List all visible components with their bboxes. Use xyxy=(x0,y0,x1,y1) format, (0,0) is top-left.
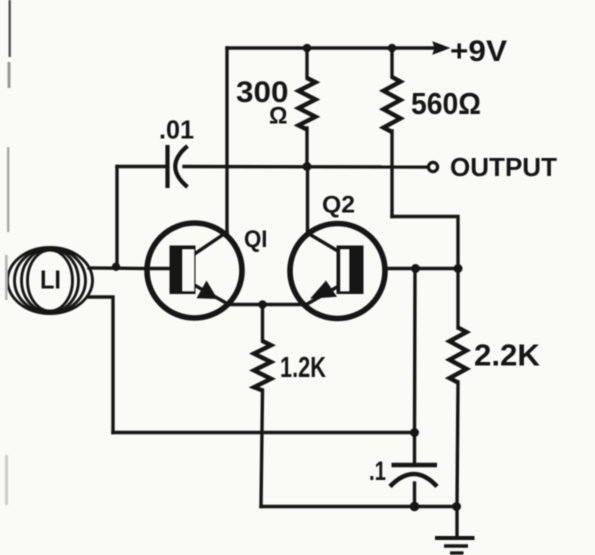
wire Q2 emitter diagonal xyxy=(308,287,337,304)
node junction dot top rail 560 ohm xyxy=(388,44,397,53)
wire ground lead xyxy=(455,507,458,537)
transistor Q1 circle xyxy=(147,223,242,318)
node junction dot feedback line xyxy=(410,428,419,437)
wire top rail +9V xyxy=(227,46,437,49)
capacitor C1 .01 curved plate xyxy=(175,146,187,187)
wire output row line xyxy=(117,165,167,168)
wire L1 top terminal to Q1 base xyxy=(89,266,148,270)
wire 300 ohm top lead xyxy=(305,48,308,78)
wire jog from 560 ohm to right column xyxy=(392,217,458,269)
wire left vertical cap to base node xyxy=(115,167,118,267)
svg-text:1.2K: 1.2K xyxy=(280,352,326,384)
svg-text:.1: .1 xyxy=(369,456,386,486)
wire 560 ohm top lead xyxy=(390,48,393,77)
wire .1 cap bottom lead xyxy=(413,483,416,507)
svg-text:560Ω: 560Ω xyxy=(411,86,481,121)
wire Q1 base lead xyxy=(148,267,170,270)
wire Q1 emitter diagonal xyxy=(196,286,228,304)
capacitor C1 .01 left plate xyxy=(165,145,169,188)
transistor Q2 base bar xyxy=(337,246,364,295)
svg-text:OUTPUT: OUTPUT xyxy=(450,154,557,182)
node junction dot Q2 base row left xyxy=(411,264,420,273)
wire 1.2K bottom lead xyxy=(261,390,263,507)
transistor Q1 emitter arrow xyxy=(197,281,218,300)
node junction dot L1 Q1 base xyxy=(112,263,120,271)
svg-text:2.2K: 2.2K xyxy=(474,338,541,373)
inductor L1 coil ellipses xyxy=(8,248,93,314)
transistor Q2 emitter arrow xyxy=(310,281,337,299)
svg-text:+9V: +9V xyxy=(450,35,507,68)
arrow +9V supply xyxy=(433,42,449,54)
terminal output circle xyxy=(428,162,437,171)
node junction dot top rail 300 ohm xyxy=(303,44,312,53)
resistor R2 560 ohm zigzag xyxy=(384,77,401,132)
scan artifact left edge marks xyxy=(5,0,11,505)
wire .1 cap top lead xyxy=(413,433,416,465)
resistor R4 2.2K zigzag xyxy=(450,328,467,383)
node junction dot emitter bus xyxy=(258,300,267,309)
wire Q2 collector diagonal xyxy=(308,233,338,251)
ground symbol xyxy=(435,538,475,553)
node junction dot Q2 base row right xyxy=(454,264,463,273)
wire 300 ohm bottom lead xyxy=(305,128,308,167)
wire Q2 base lead to right column xyxy=(385,267,458,270)
svg-text:Q2: Q2 xyxy=(322,192,355,219)
wire 2.2K bottom lead xyxy=(457,382,458,507)
svg-text:LI: LI xyxy=(40,265,61,295)
capacitor C2 .1 top plate xyxy=(392,463,438,468)
transistor Q2 circle xyxy=(290,224,385,319)
wire bottom feedback line xyxy=(113,431,415,434)
capacitor C2 .1 curved plate xyxy=(390,474,437,487)
wire bottom ground line xyxy=(261,505,457,508)
wire vertical from top rail to Q1 collector xyxy=(225,48,228,232)
wire 560 ohm bottom lead xyxy=(390,131,393,217)
wire emitter bus between Q1 and Q2 xyxy=(227,303,305,306)
resistor R1 300 ohm zigzag xyxy=(299,78,316,130)
svg-text:QI: QI xyxy=(244,226,268,253)
wire Q1 collector diagonal xyxy=(196,232,227,253)
node junction dot ground line cap xyxy=(410,502,420,512)
node junction dot output row 300 ohm xyxy=(303,162,312,171)
wire L1 bottom terminal xyxy=(89,297,113,433)
wire 1.2K top lead xyxy=(261,305,264,342)
svg-text:Ω: Ω xyxy=(269,103,288,130)
wire emitter node vertical down xyxy=(413,269,417,433)
transistor Q1 base bar xyxy=(170,246,196,295)
wire 2.2K top lead xyxy=(456,269,459,329)
node junction dot ground line right xyxy=(452,502,461,511)
svg-text:.01: .01 xyxy=(159,115,194,145)
resistor R3 1.2K zigzag xyxy=(254,341,271,391)
wire Q2 collector vertical xyxy=(306,167,309,234)
